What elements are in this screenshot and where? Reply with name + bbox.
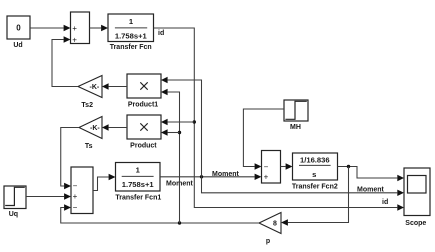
wire const Ud to Sum [30, 27, 64, 29]
wire Uq to Sum1 input 2 [26, 196, 64, 198]
svg-text:+: + [72, 35, 77, 44]
wire p branch up into Product1 input 2 [168, 92, 180, 223]
wire id branch into Product input 1 [168, 121, 195, 123]
wire Moment net: Transfer Fcn1 output to Sum2 input 2 [160, 176, 255, 178]
junction p branch to Product [178, 131, 181, 134]
svg-text:1.758s+1: 1.758s+1 [115, 32, 148, 41]
svg-text:Scope: Scope [405, 220, 426, 227]
svg-text:+: + [264, 172, 269, 181]
wire Product1 output to gain Ts2 [109, 86, 127, 88]
wire Sum2 to Transfer Fcn2 [281, 166, 286, 168]
svg-text:Ud: Ud [13, 42, 22, 49]
product block Product (flipped, inputs right) [127, 115, 161, 139]
sum block Sum2 (- +) [262, 151, 281, 184]
svg-text:p: p [266, 238, 270, 245]
wire p output to Sum1 input 3 [61, 208, 259, 224]
svg-text:id: id [158, 30, 164, 37]
transfer fcn block Transfer Fcn1 1/(1.758s+1) [116, 163, 161, 192]
svg-text:Transfer Fcn1: Transfer Fcn1 [115, 195, 161, 202]
gain block Ts2 (-K-, flipped left) [78, 76, 102, 98]
svg-text:+: + [72, 24, 77, 33]
junction Moment branch [200, 175, 203, 178]
svg-text:Uq: Uq [9, 211, 18, 218]
wire id net: Transfer Fcn output right then down to Scope input 3 [154, 28, 398, 208]
svg-text:8: 8 [273, 221, 277, 228]
svg-text:1.758s+1: 1.758s+1 [122, 180, 155, 189]
svg-text:Moment: Moment [357, 186, 385, 193]
wire Product output to gain Ts [109, 127, 127, 129]
wire Moment branch up into Product1 input 1 [168, 80, 202, 177]
svg-text:−: − [264, 162, 269, 171]
wire Ts2 output feedback to Sum input 2 [52, 40, 78, 87]
sum block Sum1 (- + -) [71, 167, 93, 214]
svg-text:Ts: Ts [85, 143, 93, 150]
svg-text:−: − [73, 182, 78, 191]
wire Transfer Fcn2 output to Scope input 1 [338, 167, 398, 179]
svg-text:−: − [73, 203, 78, 212]
step block Uq [4, 186, 26, 209]
step block MH (flipped, output left) [284, 100, 308, 121]
scope block Scope [404, 168, 430, 216]
constant block "0" Ud [7, 16, 30, 39]
transfer fcn block Transfer Fcn 1/(1.758s+1) [108, 14, 154, 42]
svg-text:-K-: -K- [90, 84, 100, 91]
wire p branch into Product input 2 [168, 132, 180, 134]
product block Product1 (flipped, inputs right) [127, 74, 161, 98]
svg-text:Moment: Moment [212, 171, 240, 178]
wire speed feedback down into gain p [288, 167, 349, 223]
svg-text:Transfer Fcn2: Transfer Fcn2 [292, 184, 338, 191]
svg-text:s: s [312, 170, 316, 179]
svg-text:0: 0 [16, 23, 21, 32]
svg-text:id: id [382, 199, 388, 206]
wire Ts output feedback to Sum1 input 1 [61, 128, 79, 187]
svg-text:1/16.836: 1/16.836 [300, 155, 330, 164]
junction p output to products [178, 221, 181, 224]
svg-text:Product: Product [130, 142, 157, 149]
sum block Sum (top, + +) [71, 12, 90, 44]
gain block Ts (-K-, flipped left) [79, 117, 102, 139]
junction speed feedback [347, 165, 350, 168]
svg-text:+: + [73, 192, 78, 201]
transfer fcn block Transfer Fcn2 1/16.836/s [293, 153, 338, 180]
junction id to Product [193, 120, 196, 123]
wire Sum to Transfer Fcn [90, 27, 102, 29]
svg-text:Ts2: Ts2 [81, 102, 93, 109]
wire MH to Sum2 input 1 [243, 109, 284, 167]
wire Moment branch down to Scope input 2 [202, 177, 398, 193]
wire Sum1 output to Transfer Fcn1 [93, 177, 109, 191]
svg-text:MH: MH [290, 124, 301, 131]
svg-text:-K-: -K- [90, 125, 100, 132]
svg-text:Transfer Fcn: Transfer Fcn [110, 44, 152, 51]
gain block p (8, flipped left) [259, 213, 281, 234]
svg-text:Product1: Product1 [128, 102, 158, 109]
